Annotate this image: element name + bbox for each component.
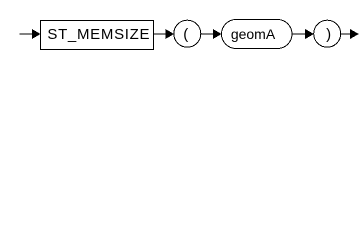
circle ( <box>174 20 201 47</box>
wire ) to end <box>341 33 352 35</box>
arrowhead into ( <box>165 29 174 39</box>
svg-text:(: ( <box>183 26 188 43</box>
svg-text:ST_MEMSIZE: ST_MEMSIZE <box>47 26 150 43</box>
background <box>0 0 360 58</box>
arrowhead end <box>350 29 359 39</box>
wire box to ( <box>154 33 169 35</box>
box ST_MEMSIZE <box>41 21 154 50</box>
arrowhead into geomA <box>213 29 222 39</box>
wire ( to geomA <box>201 33 215 35</box>
wire start segment <box>20 33 36 35</box>
wire geomA to ) <box>292 33 308 35</box>
svg-text:): ) <box>326 26 331 43</box>
arrowhead into ) <box>305 29 314 39</box>
pill geomA <box>222 20 293 49</box>
arrowhead into ST_MEMSIZE box <box>32 29 41 39</box>
svg-text:geomA: geomA <box>231 26 276 42</box>
circle ) <box>314 20 341 47</box>
